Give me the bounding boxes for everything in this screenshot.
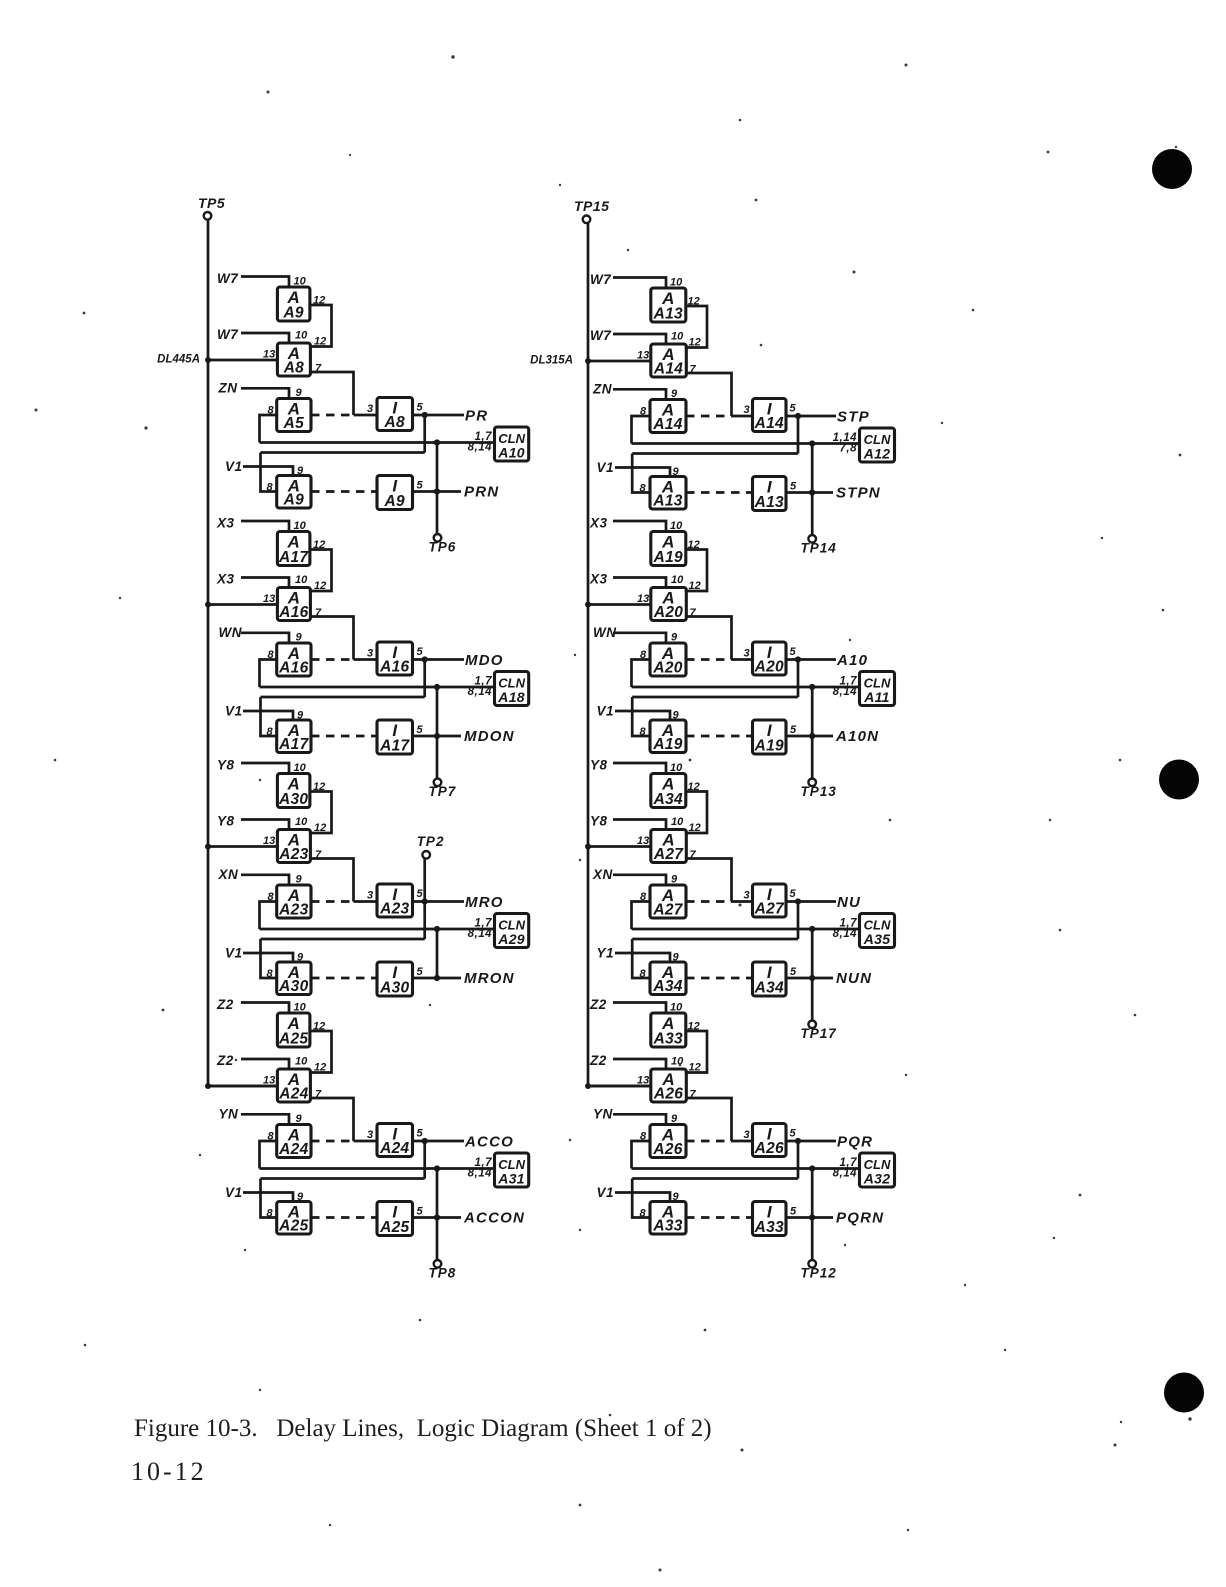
gate A34 (A element, right block A27 row 2) xyxy=(650,962,686,995)
dashed wire A26 to A26 xyxy=(686,1140,732,1143)
svg-text:X3: X3 xyxy=(216,572,235,587)
wire A25 pin 12 to A24 pin 12 xyxy=(309,1031,332,1073)
svg-text:TP13: TP13 xyxy=(801,784,837,799)
wire Z2 to A24 pin 10 xyxy=(241,1059,289,1069)
svg-text:MDO: MDO xyxy=(465,652,504,669)
figure caption xyxy=(134,1415,712,1443)
svg-text:5: 5 xyxy=(417,1128,424,1140)
wire to test point TP7 xyxy=(436,687,439,779)
svg-text:8,14: 8,14 xyxy=(833,686,857,698)
svg-text:5: 5 xyxy=(417,480,424,492)
svg-text:8: 8 xyxy=(640,1208,647,1220)
gate A20 (A element, right block A20 row 1) xyxy=(650,643,686,677)
dashed wire A25 to A25 xyxy=(311,1216,377,1219)
inverter A30 (I element, left block A23 row 2) xyxy=(377,962,413,997)
wire Z2 to A26 pin 10 xyxy=(613,1059,666,1069)
svg-text:12: 12 xyxy=(689,337,701,349)
wire output PRN xyxy=(413,490,462,493)
svg-text:A10: A10 xyxy=(497,445,525,461)
wire A23 pin 7 to inverter A23 pin 3 xyxy=(310,859,354,902)
wire to test point TP13 xyxy=(811,687,814,779)
dashed wire A24 to A24 xyxy=(311,1140,354,1143)
gate A33 (A element, right block A26 row 2) xyxy=(650,1202,686,1235)
gate A20 (A element, right block A20 second) xyxy=(651,588,687,622)
svg-text:A11: A11 xyxy=(863,689,890,705)
wire feedback into A19 pin 8 xyxy=(632,697,650,736)
gate A13 (A element, right block A14 row 2) xyxy=(650,477,686,510)
wire A14 pin 8 feedback xyxy=(632,416,651,444)
wire delay line tap to A8 pin 13 xyxy=(208,359,277,362)
svg-text:A13: A13 xyxy=(653,306,683,323)
svg-text:YN: YN xyxy=(593,1107,613,1122)
svg-text:A26: A26 xyxy=(652,1141,682,1158)
inverter A20 (I element, right block A20 row 1) xyxy=(753,642,787,676)
svg-text:8,14: 8,14 xyxy=(833,928,857,940)
gate A27 (A element, right block A27 second) xyxy=(651,830,687,864)
junction at A10N output xyxy=(809,733,815,739)
wire A27 pin 8 feedback xyxy=(632,902,651,930)
wire bus to clean-up gate CLN A11 xyxy=(632,686,860,689)
wire bus to clean-up gate CLN A29 xyxy=(260,928,495,931)
dashed wire A9 to A9 xyxy=(311,490,377,493)
svg-text:A26: A26 xyxy=(653,1086,683,1103)
svg-text:5: 5 xyxy=(417,966,424,978)
svg-text:NUN: NUN xyxy=(836,970,872,987)
svg-text:TP15: TP15 xyxy=(574,198,609,214)
svg-text:8: 8 xyxy=(267,482,274,494)
svg-text:10: 10 xyxy=(671,331,684,343)
wire WN to A20 pin 9 xyxy=(613,633,666,643)
wire to test point TP12 xyxy=(811,1169,814,1261)
clean-up gate CLN A18 xyxy=(495,672,529,706)
svg-text:A27: A27 xyxy=(653,846,684,863)
wire V1 to A30 pin 9 xyxy=(243,953,293,962)
svg-text:3: 3 xyxy=(367,890,373,902)
clean-up gate CLN A29 xyxy=(495,914,529,948)
wire A23 pin 8 feedback xyxy=(260,902,277,930)
wire feedback into A33 pin 8 xyxy=(632,1179,650,1218)
wire A8 pin 7 to inverter A8 pin 3 xyxy=(310,372,354,415)
svg-text:8: 8 xyxy=(640,483,647,495)
svg-text:12: 12 xyxy=(314,1062,326,1074)
svg-text:V1: V1 xyxy=(597,704,615,719)
wire output A10N xyxy=(786,735,833,738)
wire PR down to feedback bus xyxy=(423,415,426,453)
gate A34 (A element, right block A27 top) xyxy=(651,774,686,809)
svg-text:3: 3 xyxy=(367,1129,373,1141)
svg-text:A24: A24 xyxy=(379,1140,409,1157)
svg-text:ACCO: ACCO xyxy=(464,1134,514,1151)
wire Y1 to A34 pin 9 xyxy=(615,953,670,962)
svg-text:PRN: PRN xyxy=(464,484,499,501)
wire V1 to A13 pin 9 xyxy=(615,468,670,477)
wire output PQR xyxy=(786,1140,836,1143)
junction node DL445A xyxy=(205,357,211,363)
svg-text:Y1: Y1 xyxy=(597,946,615,961)
wire Z2 to A33 pin 10 xyxy=(613,1003,666,1014)
svg-text:8: 8 xyxy=(267,726,274,738)
wire A34 pin 12 to A27 pin 12 xyxy=(685,792,707,834)
svg-text:5: 5 xyxy=(790,1206,797,1218)
wire into inverter A16 pin 3 xyxy=(354,658,378,661)
wire delay line tap to A16 pin 13 xyxy=(208,603,277,606)
svg-text:DL445A: DL445A xyxy=(157,354,200,366)
junction on CLN A31 bus xyxy=(434,1165,440,1171)
svg-text:A8: A8 xyxy=(283,360,304,377)
wire into inverter A23 pin 3 xyxy=(354,900,378,903)
svg-text:8: 8 xyxy=(640,968,647,980)
svg-text:A23: A23 xyxy=(379,901,409,918)
junction at ACCON output xyxy=(434,1214,440,1220)
svg-text:A17: A17 xyxy=(379,738,410,755)
wire output MDO xyxy=(413,658,465,661)
wire Y8 to A30 pin 10 xyxy=(241,763,289,774)
svg-text:ACCON: ACCON xyxy=(463,1210,525,1227)
svg-text:A13: A13 xyxy=(754,494,784,511)
wire output MRO xyxy=(413,900,465,903)
svg-text:5: 5 xyxy=(417,646,424,658)
svg-text:WN: WN xyxy=(219,625,243,640)
wire feedback bus to A25 pin 8 xyxy=(261,1177,425,1180)
wire W7 to A13 pin 10 xyxy=(613,278,666,289)
svg-text:A14: A14 xyxy=(653,361,683,378)
svg-text:W7: W7 xyxy=(590,272,612,287)
junction at PR output xyxy=(422,412,428,418)
svg-text:XN: XN xyxy=(218,867,239,882)
junction at MRON output xyxy=(434,975,440,981)
svg-text:W7: W7 xyxy=(590,328,612,343)
wire bus to clean-up gate CLN A12 xyxy=(632,442,860,445)
wire into inverter A14 pin 3 xyxy=(732,415,753,418)
svg-text:8,14: 8,14 xyxy=(468,442,492,454)
svg-text:12: 12 xyxy=(314,822,326,834)
wire test point TP2 to MRO output xyxy=(423,859,426,902)
svg-text:10: 10 xyxy=(671,1056,684,1068)
svg-text:A13: A13 xyxy=(652,493,682,510)
svg-text:5: 5 xyxy=(790,1128,797,1140)
wire into inverter A8 pin 3 xyxy=(354,414,378,417)
svg-text:Y8: Y8 xyxy=(217,758,235,773)
svg-text:A30: A30 xyxy=(379,980,409,997)
wire XN to A23 pin 9 xyxy=(241,875,289,885)
svg-text:A10N: A10N xyxy=(835,728,879,745)
test point TP5 terminal xyxy=(204,212,212,220)
svg-text:A30: A30 xyxy=(278,791,308,808)
svg-text:A18: A18 xyxy=(497,689,525,705)
svg-text:10: 10 xyxy=(671,816,684,828)
gate A23 (A element, left block A23 second) xyxy=(277,830,310,864)
wire A5 pin 8 feedback xyxy=(260,415,277,443)
svg-text:A29: A29 xyxy=(497,931,525,947)
inverter A27 (I element, right block A27 row 1) xyxy=(753,884,787,918)
wire V1 to A33 pin 9 xyxy=(615,1193,670,1202)
wire delay line tap to A23 pin 13 xyxy=(208,845,277,848)
wire A20 pin 8 feedback xyxy=(632,660,651,688)
svg-text:V1: V1 xyxy=(225,946,243,961)
inverter A23 (I element, left block A23 row 1) xyxy=(377,884,413,918)
svg-text:A19: A19 xyxy=(652,736,682,753)
junction at MDON output xyxy=(434,733,440,739)
wire X3 to A19 pin 10 xyxy=(613,521,666,532)
svg-text:8,14: 8,14 xyxy=(468,686,492,698)
svg-text:A9: A9 xyxy=(283,492,304,509)
svg-text:A24: A24 xyxy=(278,1141,308,1158)
wire output STP xyxy=(786,415,836,418)
wire to test point TP14 xyxy=(811,444,814,536)
wire output PQRN xyxy=(786,1216,833,1219)
wire A10 down to feedback bus xyxy=(797,660,800,698)
wire bus to clean-up gate CLN A31 xyxy=(260,1167,495,1170)
svg-text:A34: A34 xyxy=(754,980,784,997)
wire to test point TP6 xyxy=(436,443,439,535)
inverter A24 (I element, left block A24 row 1) xyxy=(377,1124,413,1158)
junction on delay-line column xyxy=(205,1083,211,1089)
junction at NU output xyxy=(795,898,801,904)
wire PQR down to feedback bus xyxy=(797,1141,800,1179)
svg-text:8: 8 xyxy=(267,968,274,980)
dashed wire A19 to A19 xyxy=(686,735,753,738)
svg-text:10: 10 xyxy=(295,1056,308,1068)
svg-text:TP12: TP12 xyxy=(801,1266,837,1281)
svg-text:12: 12 xyxy=(689,580,701,592)
svg-text:V1: V1 xyxy=(225,459,243,474)
junction at ACCO output xyxy=(422,1138,428,1144)
svg-text:A19: A19 xyxy=(754,738,784,755)
wire V1 to A9 pin 9 xyxy=(243,467,293,476)
junction on delay-line column xyxy=(205,844,211,850)
wire into inverter A26 pin 3 xyxy=(732,1140,753,1143)
test point TP7 terminal xyxy=(434,779,442,787)
svg-text:Z2: Z2 xyxy=(216,997,234,1012)
svg-text:A17: A17 xyxy=(278,736,309,753)
svg-text:5: 5 xyxy=(790,724,797,736)
wire A16 pin 7 to inverter A16 pin 3 xyxy=(310,617,354,660)
svg-text:TP2: TP2 xyxy=(417,834,445,849)
svg-text:A24: A24 xyxy=(278,1086,308,1103)
svg-text:A26: A26 xyxy=(754,1140,784,1157)
svg-text:10: 10 xyxy=(295,574,308,586)
inverter A9 (I element, left block A8 row 2) xyxy=(377,476,413,511)
svg-text:A12: A12 xyxy=(863,446,891,462)
svg-text:7,8: 7,8 xyxy=(840,443,858,455)
wire feedback bus to A13 pin 8 xyxy=(632,452,798,455)
gate A19 (A element, right block A20 row 2) xyxy=(650,720,686,753)
wire output NUN xyxy=(786,977,833,980)
svg-text:X3: X3 xyxy=(216,516,235,531)
wire X3 to A17 pin 10 xyxy=(241,521,289,532)
wire A30 pin 12 to A23 pin 12 xyxy=(309,792,332,834)
junction on CLN A29 bus xyxy=(434,926,440,932)
svg-text:A9: A9 xyxy=(282,305,303,322)
inverter A14 (I element, right block A14 row 1) xyxy=(753,399,787,433)
gate A17 (A element, left block A16 top) xyxy=(277,532,310,567)
wire CLN bus to row 2 output xyxy=(436,929,439,978)
svg-text:12: 12 xyxy=(314,336,326,348)
svg-text:YN: YN xyxy=(219,1107,239,1122)
junction on CLN A32 bus xyxy=(809,1165,815,1171)
clean-up gate CLN A32 xyxy=(860,1153,895,1187)
clean-up gate CLN A11 xyxy=(860,672,895,706)
svg-text:3: 3 xyxy=(744,648,750,660)
svg-text:A33: A33 xyxy=(754,1219,784,1236)
svg-text:5: 5 xyxy=(417,724,424,736)
test point TP15 terminal xyxy=(583,216,591,224)
clean-up gate CLN A12 xyxy=(860,428,895,462)
junction at PQR output xyxy=(795,1138,801,1144)
wire to test point TP17 xyxy=(811,929,814,1021)
wire output ACCON xyxy=(413,1216,462,1219)
svg-text:A25: A25 xyxy=(278,1218,308,1235)
inverter A25 (I element, left block A24 row 2) xyxy=(377,1202,413,1237)
svg-text:A32: A32 xyxy=(863,1171,891,1187)
wire feedback into A34 pin 8 xyxy=(632,939,650,978)
svg-text:X3: X3 xyxy=(589,572,608,587)
svg-text:A20: A20 xyxy=(653,604,683,621)
gate A25 (A element, left block A24 row 2) xyxy=(277,1202,311,1235)
wire W7 to A9 pin 10 xyxy=(241,277,289,288)
wire feedback into A9 pin 8 xyxy=(261,453,277,492)
junction at PQRN output xyxy=(809,1214,815,1220)
wire feedback into A17 pin 8 xyxy=(261,697,277,736)
wire Z2 to A25 pin 10 xyxy=(241,1003,289,1014)
junction node DL315A xyxy=(585,358,591,364)
wire output MDON xyxy=(413,735,462,738)
wire output A10 xyxy=(786,658,836,661)
wire Y8 to A34 pin 10 xyxy=(613,763,666,774)
gate A9 (A element, left block A8 row 2) xyxy=(277,476,311,509)
page number xyxy=(131,1457,207,1487)
junction on CLN A11 bus xyxy=(809,684,815,690)
inverter A34 (I element, right block A27 row 2) xyxy=(753,962,787,997)
wire delay line tap to A20 pin 13 xyxy=(588,603,651,606)
wire MRO down to feedback bus xyxy=(423,902,426,940)
svg-text:X3: X3 xyxy=(589,516,608,531)
wire A17 pin 12 to A16 pin 12 xyxy=(309,550,332,592)
svg-text:V1: V1 xyxy=(597,1185,615,1200)
wire output ACCO xyxy=(413,1140,465,1143)
wire V1 to A17 pin 9 xyxy=(243,711,293,720)
test point TP17 terminal xyxy=(808,1021,816,1029)
dashed wire A27 to A27 xyxy=(686,900,732,903)
wire V1 to A25 pin 9 xyxy=(243,1193,293,1202)
wire delay line tap to A24 pin 13 xyxy=(208,1085,277,1088)
wire Y8 to A27 pin 10 xyxy=(613,820,666,830)
svg-text:PQR: PQR xyxy=(837,1134,873,1151)
svg-text:XN: XN xyxy=(592,867,613,882)
clean-up gate CLN A31 xyxy=(495,1153,529,1187)
junction at STP output xyxy=(795,413,801,419)
gate A26 (A element, right block A26 second) xyxy=(651,1069,687,1103)
wire to test point TP8 xyxy=(436,1169,439,1261)
svg-text:NU: NU xyxy=(837,894,861,911)
wire delay line tap to A14 pin 13 xyxy=(588,360,651,363)
registration mark dot 1 xyxy=(1152,149,1192,189)
svg-text:A16: A16 xyxy=(379,659,409,676)
inverter A8 (I element, left block A8 row 1) xyxy=(377,398,413,432)
dashed wire A33 to A33 xyxy=(686,1216,753,1219)
wire A13 pin 12 to A14 pin 12 xyxy=(685,306,707,348)
junction at NUN output xyxy=(809,975,815,981)
wire A24 pin 8 feedback xyxy=(260,1141,277,1169)
svg-text:TP6: TP6 xyxy=(429,540,457,555)
inverter A26 (I element, right block A26 row 1) xyxy=(753,1124,787,1158)
wire A20 pin 7 to inverter A20 pin 3 xyxy=(686,617,732,660)
svg-text:MDON: MDON xyxy=(464,728,515,745)
wire XN to A27 pin 9 xyxy=(613,875,666,885)
svg-text:STPN: STPN xyxy=(836,485,881,502)
junction on CLN A35 bus xyxy=(809,926,815,932)
gate A24 (A element, left block A24 second) xyxy=(277,1069,310,1103)
dashed wire A14 to A14 xyxy=(686,415,732,418)
svg-text:STP: STP xyxy=(837,409,870,426)
gate A13 (A element, right block A14 top) xyxy=(651,288,686,323)
svg-text:3: 3 xyxy=(744,890,750,902)
wire into inverter A27 pin 3 xyxy=(732,900,753,903)
svg-text:10: 10 xyxy=(295,330,308,342)
svg-text:3: 3 xyxy=(744,404,750,416)
svg-text:A27: A27 xyxy=(754,901,785,918)
svg-text:12: 12 xyxy=(314,580,326,592)
wire bus to clean-up gate CLN A32 xyxy=(632,1167,860,1170)
gate A30 (A element, left block A23 top) xyxy=(277,774,310,809)
svg-text:DL315A: DL315A xyxy=(530,355,573,367)
wire delay line DL315A vertical column (right) xyxy=(588,223,651,1086)
wire YN to A24 pin 9 xyxy=(241,1114,289,1124)
svg-text:TP7: TP7 xyxy=(429,784,457,799)
svg-text:A20: A20 xyxy=(652,660,682,677)
gate A23 (A element, left block A23 row 1) xyxy=(277,885,311,919)
svg-text:V1: V1 xyxy=(225,1185,243,1200)
junction on CLN A18 bus xyxy=(434,684,440,690)
inverter A13 (I element, right block A14 row 2) xyxy=(753,477,787,512)
test point TP13 terminal xyxy=(808,779,816,787)
svg-text:PQRN: PQRN xyxy=(836,1210,884,1227)
gate A16 (A element, left block A16 second) xyxy=(277,588,310,622)
dashed wire A17 to A17 xyxy=(311,735,377,738)
gate A5 (A element, left block A8 row 1) xyxy=(277,399,311,433)
wire feedback into A13 pin 8 xyxy=(632,454,650,493)
junction at A10 output xyxy=(795,656,801,662)
svg-text:Z2: Z2 xyxy=(589,1053,607,1068)
wire output STPN xyxy=(786,491,833,494)
gate A26 (A element, right block A26 row 1) xyxy=(650,1125,686,1159)
dashed wire A5 to A8 xyxy=(311,414,354,417)
svg-text:WN: WN xyxy=(593,625,617,640)
svg-text:Y8: Y8 xyxy=(217,814,235,829)
svg-text:10: 10 xyxy=(671,574,684,586)
test point TP8 terminal xyxy=(434,1260,442,1268)
svg-text:ZN: ZN xyxy=(218,381,238,396)
junction on CLN A10 bus xyxy=(434,439,440,445)
svg-text:A14: A14 xyxy=(754,415,784,432)
svg-text:A31: A31 xyxy=(497,1171,525,1187)
gate A33 (A element, right block A26 top) xyxy=(651,1013,686,1048)
svg-text:5: 5 xyxy=(790,481,797,493)
svg-text:12: 12 xyxy=(689,822,701,834)
gate A25 (A element, left block A24 top) xyxy=(277,1013,310,1048)
gate A17 (A element, left block A16 row 2) xyxy=(277,720,311,753)
wire feedback bus to A33 pin 8 xyxy=(632,1177,798,1180)
wire delay line tap to A27 pin 13 xyxy=(588,845,651,848)
wire output PR xyxy=(413,414,465,417)
svg-text:A30: A30 xyxy=(278,978,308,995)
wire V1 to A19 pin 9 xyxy=(615,711,670,720)
wire YN to A26 pin 9 xyxy=(613,1114,666,1124)
svg-text:A25: A25 xyxy=(278,1031,308,1048)
svg-text:3: 3 xyxy=(744,1129,750,1141)
dashed wire A34 to A34 xyxy=(686,977,753,980)
wire bus to clean-up gate CLN A10 xyxy=(260,441,495,444)
